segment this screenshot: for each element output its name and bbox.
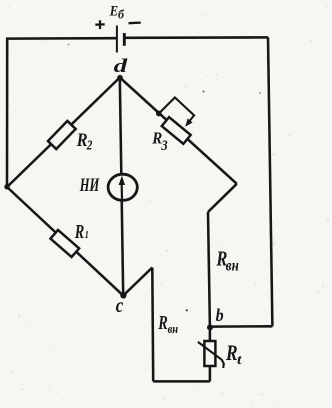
wire: bend down-left to node c	[123, 268, 152, 296]
svg-text:вн: вн	[168, 321, 179, 336]
wire: node b to right vertical horizontal	[210, 325, 272, 328]
node c dot	[120, 292, 126, 298]
galvanometer NI circle	[108, 174, 137, 200]
svg-text:E: E	[109, 3, 118, 19]
R3 slider arrowhead	[185, 119, 192, 127]
thermistor diagonal stroke with tail	[198, 342, 224, 368]
galvanometer needle arrowhead	[119, 176, 125, 185]
resistor R2 body	[48, 121, 76, 149]
resistor R3 body	[162, 117, 191, 144]
node d dot	[117, 75, 123, 81]
wire: right vertex down-left bend	[208, 184, 237, 212]
battery E_b positive plate (long)	[116, 26, 118, 53]
label - polarity	[129, 21, 141, 24]
svg-text:б: б	[118, 7, 125, 21]
wire: R_vn left vertical	[151, 268, 154, 382]
label + polarity	[95, 20, 104, 29]
node b dot	[207, 324, 213, 330]
wire: top left horizontal (left corner to battery + plate)	[7, 37, 116, 40]
svg-text:2: 2	[86, 138, 93, 153]
svg-text:d: d	[114, 57, 129, 77]
wire: top right horizontal (battery - plate to right corner)	[124, 36, 268, 39]
wire: R_t bottom lead	[209, 367, 212, 382]
battery E_b negative plate (short)	[123, 33, 126, 46]
galvanometer needle shaft	[120, 181, 123, 200]
wire: bridge arm d to left vertex (R2 branch)	[7, 78, 120, 188]
svg-text:3: 3	[161, 138, 169, 154]
wire: R_vn right vertical down to node b	[208, 212, 210, 340]
wire: bridge arm left vertex to c (R1 branch)	[7, 187, 123, 296]
svg-text:R: R	[225, 340, 237, 365]
svg-text:b: b	[216, 305, 224, 325]
resistor R1 body	[50, 230, 79, 257]
wire: bridge arm d to right vertex (R3 branch)	[120, 78, 237, 184]
wire: left vertical	[6, 38, 9, 188]
node: left bridge vertex dot	[4, 184, 9, 189]
junction dot on R3 tap	[156, 111, 162, 117]
svg-text:вн: вн	[226, 258, 239, 275]
thermistor R_t body	[204, 341, 215, 366]
svg-text:1: 1	[85, 230, 89, 241]
wire: bridge diagonal d to c through galvanometer	[120, 78, 123, 296]
svg-text:R: R	[74, 221, 84, 243]
wire: bottom horizontal	[153, 380, 210, 383]
R3 slider tap wire	[159, 98, 194, 124]
svg-text:НИ: НИ	[79, 175, 100, 196]
svg-text:c: c	[116, 293, 124, 317]
svg-text:R: R	[157, 313, 167, 334]
wire: right vertical	[268, 37, 272, 326]
